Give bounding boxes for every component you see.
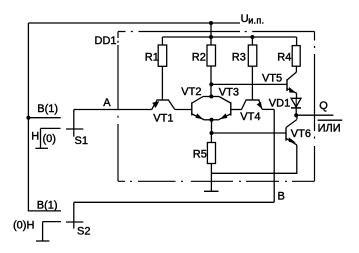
svg-text:VT1: VT1 [153, 112, 173, 124]
wire VT5 base from R2 node [211, 83, 287, 85]
resistor R4 [296, 37, 298, 46]
svg-text:VT6: VT6 [291, 128, 311, 140]
wire node B riser [273, 109, 275, 202]
resistor R3 [251, 37, 253, 45]
switch S2 [66, 221, 83, 223]
diode VD1 [291, 98, 301, 107]
svg-text:R4: R4 [277, 52, 291, 64]
wire VT6 emitter down and left [211, 145, 296, 173]
wire VT4 emitter to node B riser [262, 108, 274, 110]
svg-text:VT4: VT4 [240, 111, 260, 123]
switch S1 [26, 116, 30, 120]
svg-text:R5: R5 [193, 149, 207, 161]
overline of ИЛИ [318, 119, 343, 121]
wire R5 to ground [210, 164, 212, 192]
waveform marker H(0) top [41, 127, 61, 129]
svg-text:ИЛИ: ИЛИ [318, 122, 341, 134]
transistor VT4 [245, 99, 259, 101]
waveform marker (0)H bottom [43, 221, 61, 223]
wire VT3 base to VT4 [231, 109, 242, 111]
svg-text:A: A [103, 97, 111, 109]
resistor R5 [210, 133, 212, 143]
transistor VT3 [230, 102, 232, 115]
svg-text:R3: R3 [232, 52, 246, 64]
ground [204, 190, 219, 192]
svg-text:S1: S1 [75, 135, 88, 147]
svg-text:B(1): B(1) [37, 103, 58, 115]
node junction R5 top [210, 131, 214, 135]
wire octagon bottom [204, 119, 220, 121]
transistor VT5 [286, 79, 288, 91]
wire VD1 anode lead [296, 93, 298, 98]
svg-text:Q: Q [319, 100, 328, 112]
svg-text:(0)H: (0)H [13, 219, 34, 231]
node junction VT5 base tap [209, 82, 213, 86]
node junction output Q [294, 113, 298, 117]
wire output Q [296, 114, 333, 116]
node junction emitter pair [210, 118, 214, 122]
wire node A [74, 109, 152, 111]
svg-text:R2: R2 [192, 52, 206, 64]
transistor VT6 [296, 115, 298, 119]
wire R2 feed from rail [210, 23, 212, 45]
svg-text:DD1: DD1 [95, 35, 117, 47]
node junction bus-R2 [209, 35, 213, 39]
svg-text:B: B [278, 191, 285, 203]
wire octagon top [203, 96, 219, 98]
node junction rail-R2 [209, 21, 213, 25]
DD1 box dash-dot border [118, 32, 315, 182]
wire left input rail [28, 23, 61, 211]
svg-text:B(1): B(1) [37, 200, 58, 212]
svg-text:(0): (0) [43, 133, 56, 145]
svg-text:VD1: VD1 [269, 97, 290, 109]
svg-text:VT5: VT5 [262, 73, 282, 85]
svg-text:S2: S2 [77, 226, 90, 238]
node junction bus-R3 [250, 35, 254, 39]
svg-text:VT2: VT2 [181, 86, 201, 98]
svg-text:H: H [31, 130, 39, 142]
wire VT6 base [212, 132, 287, 134]
svg-text:R1: R1 [145, 52, 159, 64]
transistor VT2 [191, 102, 193, 115]
wire node B bottom [74, 201, 274, 203]
resistor R1 [161, 37, 163, 45]
svg-text:и.п.: и.п. [248, 15, 264, 25]
wire VT1 collector to VT2 base [175, 109, 192, 111]
wire resistor top bus y37 [162, 36, 296, 38]
node junction collector pair [209, 95, 213, 99]
wire power rail Uип [28, 22, 240, 24]
svg-text:VT3: VT3 [219, 87, 239, 99]
resistor R2 [207, 45, 216, 66]
wire emitter node down [211, 120, 213, 133]
transistor VT1 [156, 99, 169, 101]
